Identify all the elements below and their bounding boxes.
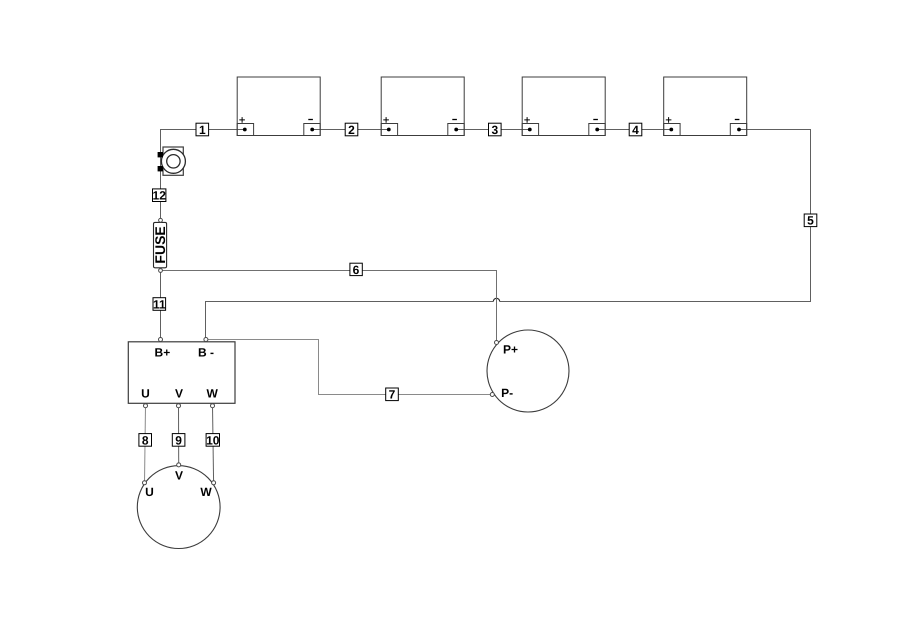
fuse F1 [152,218,168,272]
terminal motor W [212,481,216,485]
terminal B- [204,338,208,342]
key switch S1 [158,147,186,175]
svg-text:8: 8 [142,433,149,447]
svg-text:W: W [200,485,212,499]
svg-text:7: 7 [389,388,396,402]
wire: controller U to motor U (net 8) [145,406,146,483]
svg-text:5: 5 [807,214,814,228]
wire label 1 [196,123,209,137]
wire: battery2 - to battery3 + (net 3) [456,129,530,131]
svg-text:6: 6 [353,263,360,277]
terminal W [211,404,215,408]
terminal V [177,404,181,408]
wire: battery1 - to battery2 + (net 2) [312,129,389,131]
svg-text:P-: P- [501,386,513,400]
svg-text:3: 3 [491,123,498,137]
terminal B+ [159,338,163,342]
wire label 8 [139,433,152,447]
wire label 9 [172,433,185,447]
wire: fuse bottom to B+ (net 11) [160,271,162,340]
svg-text:12: 12 [153,189,167,203]
wire: fuse bottom to P+ (net 6) [161,271,497,343]
pump P1 circle [487,330,569,412]
terminal P- [490,393,494,397]
wire label 7 [386,388,399,402]
wire label 5 [804,214,817,228]
svg-text:B+: B+ [155,346,171,360]
svg-text:U: U [145,485,154,499]
svg-text:U: U [141,386,150,400]
svg-text:V: V [175,468,183,482]
wire: controller V to motor V (net 9) [178,406,180,465]
battery BT4 [664,77,747,136]
wire label 3 [489,123,502,137]
svg-text:4: 4 [632,123,639,137]
svg-text:11: 11 [153,297,166,311]
wire: B- to P- (net 7) [206,340,492,395]
wire: net 5 continuation left of hop to B- terminal [206,302,494,340]
svg-text:2: 2 [348,123,355,137]
battery BT3 [522,77,605,136]
wire: switch to battery1 + (net 1) [161,130,245,221]
wire label 10 [206,433,220,447]
battery BT2 [381,77,464,136]
wire: battery3 - to battery4 + (net 4) [597,129,671,131]
svg-text:P+: P+ [503,343,518,357]
terminal U [144,404,148,408]
svg-text:V: V [175,386,183,400]
svg-text:1: 1 [199,123,206,137]
wire: battery4 - down and across to B- (net 5) [500,130,811,302]
svg-text:W: W [207,386,219,400]
wire hop over crossing at x=496.7 [493,298,499,301]
svg-text:FUSE: FUSE [152,226,168,263]
svg-text:B -: B - [198,346,214,360]
svg-text:9: 9 [175,433,182,447]
battery BT1 [237,77,320,136]
terminal motor V [177,463,181,467]
terminal motor U [143,481,147,485]
motor M1 circle [137,463,220,549]
wire label 11 [153,297,166,311]
wire: controller W to motor W (net 10) [213,406,214,483]
terminal P+ [495,341,499,345]
wire label 6 [350,263,362,277]
wire label 4 [629,123,642,137]
wire label 12 [153,189,167,203]
wire label 2 [345,123,358,137]
controller U1 box [128,338,235,408]
svg-text:10: 10 [206,433,220,447]
